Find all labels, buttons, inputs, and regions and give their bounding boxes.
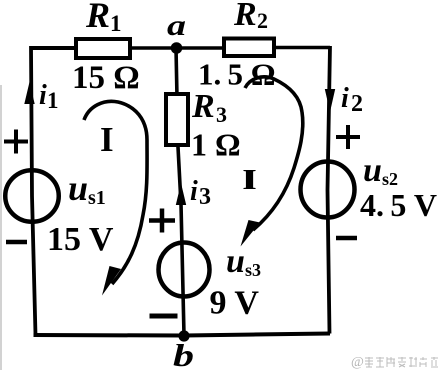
svg-text:s3: s3 — [245, 260, 261, 280]
plus sign us1 — [4, 130, 28, 154]
watermark pseudo CJK glyphs — [365, 357, 438, 367]
wire node a to R2 — [176, 46, 224, 50]
svg-text:2: 2 — [351, 91, 363, 117]
svg-text:i: i — [39, 80, 47, 111]
svg-text:u: u — [68, 168, 88, 208]
svg-text:R: R — [191, 88, 215, 125]
value label 1.5 ohm (R2) — [198, 57, 276, 92]
label R3 — [191, 88, 227, 127]
svg-text:9 V: 9 V — [210, 285, 260, 322]
node a — [171, 42, 183, 54]
label R2 — [233, 0, 268, 33]
label i2 — [341, 83, 363, 117]
value label 15 V (us1) — [47, 221, 114, 258]
wire right branch vertical — [328, 46, 331, 334]
voltage source us3 circle — [159, 243, 210, 297]
svg-text:u: u — [226, 243, 245, 280]
svg-text:a: a — [167, 9, 186, 42]
label us3 — [226, 243, 261, 280]
wire left branch vertical — [31, 46, 36, 335]
svg-text:i: i — [341, 83, 349, 114]
resistor R1 — [76, 39, 130, 58]
wire middle branch vertical (node a to node b) — [176, 48, 184, 335]
label i3 — [190, 176, 211, 210]
wire top-left horizontal (corner to R1) — [31, 46, 76, 50]
svg-text:@: @ — [351, 355, 364, 370]
minus sign us3 — [150, 314, 178, 319]
svg-text:4. 5 V: 4. 5 V — [360, 187, 437, 223]
svg-text:3: 3 — [199, 184, 211, 210]
svg-text:15 Ω: 15 Ω — [72, 60, 140, 96]
svg-text:b: b — [173, 337, 194, 370]
label loop II — [243, 164, 257, 196]
label node a — [167, 9, 186, 42]
wire R2 to top-right corner — [274, 46, 330, 50]
current arrow i3 — [176, 183, 186, 205]
svg-text:u: u — [363, 152, 382, 189]
svg-text:1: 1 — [47, 88, 59, 113]
svg-text:2: 2 — [257, 8, 268, 33]
svg-text:1: 1 — [110, 11, 122, 36]
current arrow i1 — [24, 82, 34, 104]
label node b — [173, 337, 194, 373]
resistor R2 — [224, 39, 274, 57]
mesh loop II arrow — [241, 77, 303, 247]
svg-text:R: R — [233, 0, 257, 33]
current arrow i2 — [325, 89, 335, 112]
plus sign us3 — [149, 209, 175, 233]
svg-text:i: i — [190, 176, 198, 207]
resistor R3 — [166, 94, 188, 145]
svg-text:1 Ω: 1 Ω — [191, 127, 241, 163]
svg-text:I: I — [100, 120, 114, 159]
node b — [178, 330, 189, 341]
value label 1 ohm (R3) — [191, 127, 241, 163]
label i1 — [39, 80, 59, 113]
value label 9 V (us3) — [210, 285, 260, 322]
svg-text:1. 5 Ω: 1. 5 Ω — [198, 57, 276, 92]
voltage source us2 circle — [301, 162, 355, 218]
scan edge artifact left strip — [0, 85, 2, 370]
minus sign us2 — [336, 236, 357, 241]
svg-text:s2: s2 — [382, 169, 398, 189]
label loop I — [100, 120, 114, 159]
wire R1 to node a — [130, 46, 176, 50]
label us2 — [363, 152, 398, 189]
mesh loop I arrow — [84, 101, 147, 295]
label R1 — [85, 0, 122, 36]
value label 4.5 V (us2) — [360, 187, 437, 223]
svg-text:3: 3 — [216, 102, 227, 127]
plus sign us2 — [336, 125, 360, 149]
wire bottom horizontal — [34, 334, 331, 336]
label us1 — [68, 168, 106, 209]
svg-text:15 V: 15 V — [47, 221, 114, 258]
watermark @ site — [351, 355, 364, 370]
value label 15 ohm (R1) — [72, 60, 140, 96]
svg-text:s1: s1 — [88, 187, 106, 209]
svg-text:R: R — [85, 0, 110, 35]
voltage source us1 circle — [5, 170, 59, 222]
minus sign us1 — [6, 240, 27, 245]
